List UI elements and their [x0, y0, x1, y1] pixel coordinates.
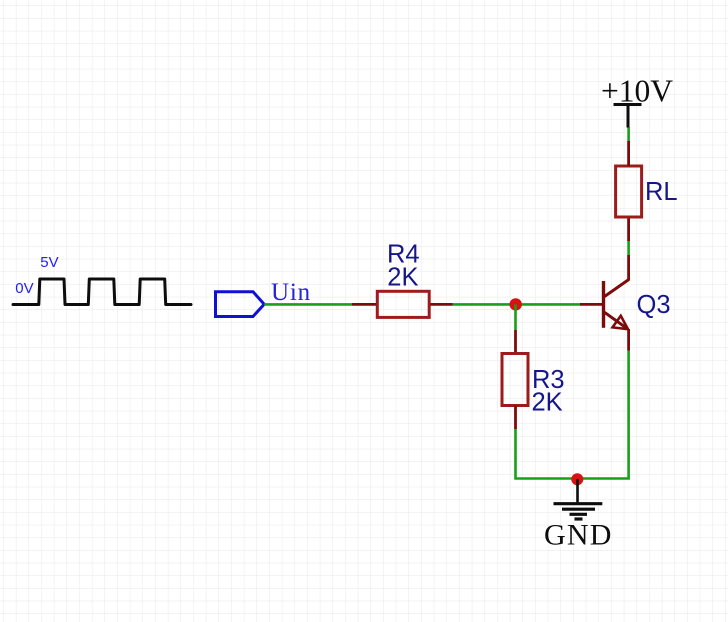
wire collector to RL: [627, 241, 630, 255]
resistor R3: [502, 354, 528, 406]
svg-text:GND: GND: [544, 519, 613, 552]
junction node dot: [510, 298, 522, 310]
transistor Q3: [604, 280, 629, 330]
wire node to transistor base: [516, 303, 581, 306]
resistor RL: [616, 166, 642, 217]
svg-text:Uin: Uin: [271, 279, 311, 306]
pin R3 top: [514, 330, 517, 354]
pin R3 bottom: [514, 406, 517, 430]
wire R4 to node: [453, 303, 516, 306]
svg-text:5V: 5V: [40, 254, 58, 271]
bottom junction dot: [571, 473, 583, 485]
wire emitter to bottom rail: [577, 351, 629, 479]
wire R3 to bottom rail: [516, 429, 578, 479]
pin RL top: [627, 141, 630, 166]
pin R4 right: [429, 303, 453, 306]
pin collector: [627, 255, 630, 281]
pin R4 left: [352, 303, 378, 306]
ground symbol: [554, 479, 603, 519]
pin emitter: [627, 329, 630, 351]
wire RL to power: [627, 127, 630, 141]
wire port to R4: [264, 303, 352, 306]
power terminal +10V: [614, 105, 642, 128]
svg-text:+10V: +10V: [601, 74, 673, 109]
resistor R4: [377, 291, 429, 317]
svg-text:2K: 2K: [532, 389, 563, 417]
wire node down to R3: [514, 304, 517, 330]
pin RL bottom: [627, 217, 630, 241]
input port Uin: [216, 292, 265, 317]
pin base (transistor): [580, 303, 604, 306]
svg-text:Q3: Q3: [637, 291, 671, 319]
svg-text:RL: RL: [645, 178, 678, 206]
svg-text:0V: 0V: [15, 280, 33, 297]
svg-text:2K: 2K: [387, 264, 418, 292]
input square waveform: [13, 279, 191, 305]
